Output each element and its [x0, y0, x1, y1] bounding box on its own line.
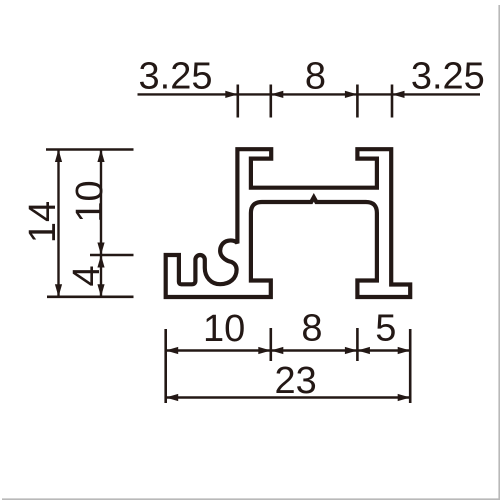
svg-text:10: 10 [69, 180, 111, 222]
svg-text:10: 10 [203, 308, 245, 350]
rail profile outline (aluminium extrusion cross-section with top slot, C-cavity, glider hook) [166, 149, 411, 297]
dimension line 8 span [271, 93, 358, 95]
arrowhead left at x=165.7 row2 [166, 394, 179, 401]
svg-text:4: 4 [66, 265, 108, 286]
extension tick at hook lip top [90, 254, 134, 257]
arrowhead up 14 [55, 150, 62, 163]
top dimension lines (3.25 / 8 / 3.25) [138, 93, 481, 95]
arrowhead left at x=392 [392, 91, 405, 98]
arrowhead right at x=357.4 [345, 91, 358, 98]
extension tick at left wall [237, 85, 240, 118]
arrowhead right at x=410.2 row1 [398, 347, 411, 354]
dimension line 14 [57, 150, 59, 297]
top dimension arrowheads [225, 91, 404, 98]
dimension line 23 [166, 396, 411, 398]
svg-text:8: 8 [301, 308, 322, 350]
svg-text:23: 23 [275, 360, 317, 402]
extension tick at profile bottom [47, 295, 134, 298]
extension tick at right foot inner edge [356, 328, 359, 361]
extension tick at right tab end [356, 85, 359, 118]
dimension line 3.25 right span [357, 93, 392, 95]
arrowhead right at x=357.4 row1 [345, 347, 358, 354]
arrowhead right at x=237.8 [225, 91, 238, 98]
extension tick at left tab end [269, 85, 272, 118]
dimension line 3.25 left span [238, 93, 271, 95]
extension tick at profile top [46, 148, 134, 151]
arrowhead up 10 [97, 150, 104, 163]
extension tick at right foot edge [409, 329, 412, 403]
bottom extension ticks [166, 328, 411, 403]
bottom dimension lines (10 / 8 / 5 and 23) [166, 351, 411, 398]
extension tick at left foot edge [164, 329, 167, 403]
dimension line 10 [100, 150, 102, 256]
frame edge right [498, 5, 500, 500]
arrowhead left at x=357.4 row1 [357, 347, 370, 354]
extension tick at right wall [391, 85, 394, 118]
leader line right 3.25 [392, 93, 480, 95]
arrowhead left at x=165.7 row1 [166, 347, 179, 354]
top extension ticks [238, 85, 392, 118]
left extension ticks [46, 150, 134, 297]
svg-text:3.25: 3.25 [139, 55, 213, 97]
arrowhead down 14 [55, 284, 62, 297]
arrowhead down 4 [97, 284, 104, 297]
left dimension arrowheads [55, 150, 105, 297]
dimension line 4 [100, 255, 102, 297]
extension tick at left foot inner edge [269, 328, 272, 361]
bottom dimension arrowheads [166, 347, 411, 401]
arrowhead up 4 [97, 255, 104, 268]
leader line left 3.25 [138, 93, 238, 95]
svg-text:8: 8 [305, 55, 326, 97]
svg-text:3.25: 3.25 [411, 55, 485, 97]
arrowhead down 10 [97, 243, 104, 256]
frame edge bottom [2, 498, 500, 500]
dimension line 10-8-5 row [166, 349, 411, 351]
arrowhead right at x=270.8 row1 [258, 347, 271, 354]
arrowhead left at x=270.8 [271, 91, 284, 98]
arrowhead left at x=270.8 row1 [271, 347, 284, 354]
arrowhead right at x=410.2 row2 [398, 394, 411, 401]
svg-text:5: 5 [375, 308, 396, 350]
svg-text:14: 14 [22, 201, 64, 243]
left dimension lines (14 / 10 / 4) [59, 150, 102, 297]
